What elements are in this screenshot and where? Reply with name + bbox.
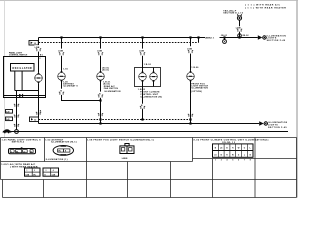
svg-text:LG/B: LG/B xyxy=(35,47,40,49)
svg-text:M/L: M/L xyxy=(16,151,19,153)
svg-text:ILLUMINATION: ILLUMINATION xyxy=(104,90,121,93)
svg-text:SECTION Z-49: SECTION Z-49 xyxy=(268,126,287,129)
svg-text:8: 8 xyxy=(250,160,251,162)
svg-text:SWITCH-2: SWITCH-2 xyxy=(12,142,25,144)
svg-text:4: 4 xyxy=(227,159,228,162)
svg-text:7: 7 xyxy=(244,160,245,162)
svg-text:2: 2 xyxy=(40,58,41,60)
svg-text:ILLUMINATION (M-1): ILLUMINATION (M-1) xyxy=(51,141,77,144)
svg-text:3: 3 xyxy=(221,160,222,162)
svg-text:B 5: B 5 xyxy=(40,55,43,57)
svg-text:M/L: M/L xyxy=(58,151,61,153)
svg-text:LG/B: LG/B xyxy=(187,48,192,50)
svg-text:JB-02: JB-02 xyxy=(242,35,249,37)
svg-text:LG/B B: LG/B B xyxy=(122,158,128,160)
svg-text:(OPTION): (OPTION) xyxy=(191,91,202,93)
svg-text:1: 1 xyxy=(215,160,216,162)
svg-text:1-08 FRONT FOG LIGHT SWITCH IL: 1-08 FRONT FOG LIGHT SWITCH ILLUMINATION… xyxy=(87,139,154,142)
svg-text:M/L: M/L xyxy=(33,174,36,176)
svg-text:OSCILLATOR: OSCILLATOR xyxy=(12,67,32,70)
svg-text:ILLUMINATION (1): ILLUMINATION (1) xyxy=(46,158,68,161)
svg-text:(B-01): (B-01) xyxy=(102,70,109,72)
svg-text:1 B-02: 1 B-02 xyxy=(144,64,152,66)
svg-text:ILLUMINAT O: ILLUMINAT O xyxy=(63,84,78,87)
svg-text:SECTION Z-49: SECTION Z-49 xyxy=(267,39,286,42)
svg-text:L: L xyxy=(244,154,245,156)
svg-text:LG/B: LG/B xyxy=(236,27,241,29)
svg-text:SECTION D-L.13: SECTION D-L.13 xyxy=(223,13,243,15)
svg-text:2-40: 2-40 xyxy=(6,111,9,114)
svg-text:( 1 1 ) WITH REAR A/C: ( 1 1 ) WITH REAR A/C xyxy=(245,4,281,7)
svg-text:FAN SWITCH: FAN SWITCH xyxy=(104,87,119,90)
svg-text:ILLUMINATION: ILLUMINATION xyxy=(191,87,208,90)
svg-text:1-55: 1-55 xyxy=(63,69,68,71)
svg-text:L: L xyxy=(250,148,251,150)
svg-text:(B/W) 1 1: (B/W) 1 1 xyxy=(205,38,215,40)
svg-text:6: 6 xyxy=(238,160,239,162)
svg-text:1 B-06: 1 B-06 xyxy=(191,67,199,69)
svg-text:ILLUMINATION (M): ILLUMINATION (M) xyxy=(140,95,162,98)
svg-text:2-40: 2-40 xyxy=(6,118,9,121)
svg-text:5: 5 xyxy=(232,160,233,162)
svg-text:( 1 1 ) WITH REAR HEATER: ( 1 1 ) WITH REAR HEATER xyxy=(245,7,286,10)
